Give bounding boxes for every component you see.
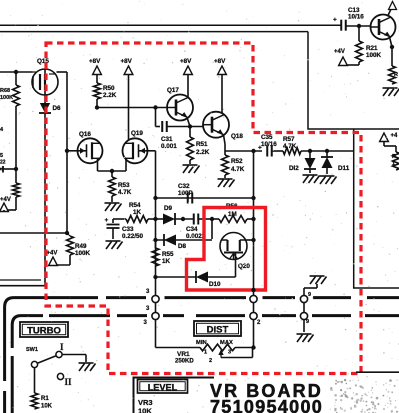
svg-text:0.22/50: 0.22/50 — [122, 233, 144, 240]
svg-text:SW1: SW1 — [26, 347, 38, 353]
svg-text:R53: R53 — [118, 182, 130, 189]
svg-text:Q18: Q18 — [231, 133, 243, 140]
svg-text:C34: C34 — [186, 226, 198, 233]
svg-text:C35: C35 — [261, 134, 273, 141]
svg-text:250KD: 250KD — [175, 359, 194, 365]
svg-text:+4: +4 — [391, 133, 399, 139]
svg-text:D10: D10 — [209, 281, 221, 288]
svg-text:+4V: +4V — [0, 197, 11, 203]
svg-text:R55: R55 — [162, 251, 174, 258]
svg-text:R51: R51 — [196, 141, 208, 148]
svg-text:LEVEL: LEVEL — [148, 383, 178, 393]
svg-text:10K: 10K — [138, 407, 152, 413]
svg-text:I: I — [60, 342, 64, 352]
svg-text:+: + — [105, 217, 109, 224]
svg-text:3: 3 — [228, 350, 231, 356]
svg-text:II: II — [65, 377, 73, 387]
svg-text:22: 22 — [0, 160, 6, 166]
svg-text:100K: 100K — [75, 250, 91, 257]
svg-text:Q19: Q19 — [131, 130, 143, 137]
svg-text:DIST: DIST — [207, 325, 229, 336]
svg-text:100K: 100K — [0, 95, 13, 101]
svg-text:D9: D9 — [164, 205, 173, 212]
svg-text:+8V: +8V — [214, 58, 226, 65]
svg-text:2: 2 — [209, 358, 212, 364]
svg-text:MIN: MIN — [196, 340, 207, 346]
svg-text:4.7K: 4.7K — [118, 189, 132, 196]
svg-text:R57: R57 — [283, 136, 295, 143]
svg-text:2.2K: 2.2K — [103, 92, 117, 99]
svg-text:DI2: DI2 — [289, 165, 299, 172]
svg-text:1K: 1K — [162, 258, 171, 265]
svg-text:100K: 100K — [366, 52, 382, 59]
svg-text:R21: R21 — [366, 45, 378, 52]
svg-text:R: R — [394, 72, 398, 78]
svg-text:0.001: 0.001 — [161, 143, 177, 150]
svg-text:R50: R50 — [103, 85, 115, 92]
svg-text:D8: D8 — [178, 243, 187, 250]
svg-text:Q16: Q16 — [79, 131, 91, 138]
svg-text:R1: R1 — [41, 396, 49, 402]
svg-text:10/16: 10/16 — [261, 141, 277, 148]
svg-text:100P: 100P — [178, 190, 193, 197]
svg-text:D6: D6 — [53, 105, 62, 112]
svg-text:+4V: +4V — [47, 251, 58, 257]
svg-text:R68: R68 — [0, 88, 10, 94]
svg-text:+: + — [258, 145, 262, 152]
svg-text:R: R — [392, 154, 396, 160]
svg-text:TURBO: TURBO — [27, 326, 61, 337]
svg-text:+4V: +4V — [334, 49, 345, 55]
svg-text:4.7K: 4.7K — [231, 166, 245, 173]
svg-text:2.2K: 2.2K — [196, 149, 210, 156]
svg-text:5: 5 — [0, 153, 3, 159]
svg-text:+8V: +8V — [89, 58, 101, 65]
svg-text:+8V: +8V — [121, 58, 133, 65]
svg-text:R54: R54 — [129, 202, 141, 209]
svg-text:Q17: Q17 — [167, 87, 179, 94]
svg-text:1: 1 — [204, 350, 207, 356]
svg-text:R49: R49 — [75, 243, 87, 250]
svg-text:D11: D11 — [338, 165, 350, 172]
svg-text:C31: C31 — [161, 136, 173, 143]
svg-text:4.7K: 4.7K — [283, 143, 297, 150]
svg-text:7510954000: 7510954000 — [210, 397, 323, 413]
svg-text:C33: C33 — [122, 226, 134, 233]
svg-text:1: 1 — [392, 161, 395, 167]
svg-text:+: + — [333, 17, 337, 24]
svg-text:VR1: VR1 — [177, 351, 190, 358]
svg-text:9: 9 — [306, 319, 309, 325]
svg-text:10K: 10K — [41, 404, 53, 410]
svg-text:9: 9 — [308, 292, 311, 298]
svg-text:R52: R52 — [231, 158, 243, 165]
svg-text:C32: C32 — [178, 183, 190, 190]
svg-text:10/16: 10/16 — [348, 14, 364, 21]
svg-text:+8V: +8V — [180, 58, 192, 65]
